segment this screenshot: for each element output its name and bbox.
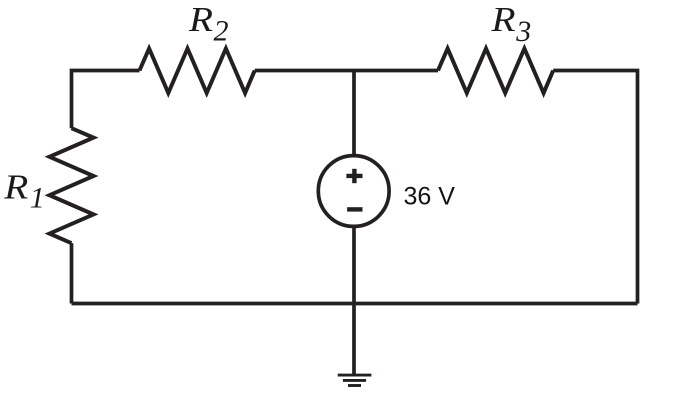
svg-text:R: R [3,167,28,206]
resistor R1 [50,128,94,243]
wire middle lower (source through bottom to ground) [352,226,356,376]
resistor R3 [438,49,553,94]
wire bottom-left vertical [70,243,74,303]
svg-text:R: R [490,0,515,39]
label R1 [3,167,45,214]
svg-text:2: 2 [214,14,229,47]
svg-text:36 V: 36 V [404,182,456,210]
wire top-left segment with left corner [72,71,140,129]
svg-text:R: R [188,0,213,39]
label R2 [188,0,229,47]
minus sign of source [347,207,362,211]
wire top-right with right side down [553,71,637,304]
wire bottom [72,302,638,306]
ground symbol [338,375,372,385]
wire middle upper (node to source) [352,71,356,158]
plus sign of source [346,169,362,183]
wire top-middle [255,69,438,73]
resistor R2 [140,49,255,94]
label R3 [490,0,531,48]
svg-text:1: 1 [30,181,45,214]
svg-text:3: 3 [515,15,531,48]
voltage source V1 circle [318,156,389,227]
